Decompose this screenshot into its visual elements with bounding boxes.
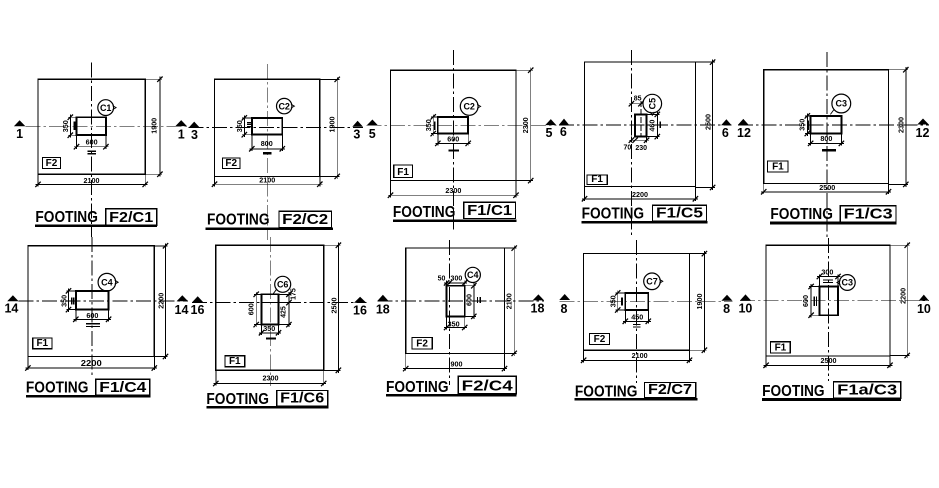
dimension 2300 (footing depth) [530, 68, 532, 183]
wire: vertical centerline grid 5 [452, 50, 454, 232]
footing type label F1 [768, 161, 789, 172]
svg-text:14: 14 [175, 303, 189, 317]
node column bubble C3 [832, 94, 851, 113]
dimension 2200 (footing depth) [906, 243, 908, 358]
svg-text:F2/C4: F2/C4 [462, 377, 514, 394]
dimension 2500 (footing width) [761, 191, 891, 193]
dimension 350 (column width) [444, 327, 467, 329]
svg-text:300: 300 [451, 276, 463, 283]
svg-text:FOOTING: FOOTING [762, 383, 825, 400]
svg-text:5: 5 [546, 126, 553, 140]
wire: vertical centerline grid 8 [636, 240, 638, 383]
dimension 350 (column depth) [243, 115, 245, 137]
svg-text:2100: 2100 [504, 293, 513, 309]
wire: vertical centerline grid 10 [827, 238, 829, 381]
dimension 70 / 230 (column offsets) [629, 139, 649, 141]
svg-text:C2: C2 [278, 101, 290, 111]
svg-text:F2: F2 [594, 334, 606, 345]
dimension 2100 (footing depth) [513, 246, 515, 356]
svg-text:1900: 1900 [150, 118, 159, 134]
svg-text:F1: F1 [36, 338, 48, 349]
column C4 [76, 291, 109, 310]
rebar mark below column [822, 149, 836, 151]
node column bubble C7 [644, 273, 661, 290]
svg-text:600: 600 [465, 294, 474, 306]
dimension 600 (column width) [73, 318, 111, 320]
svg-text:2200: 2200 [632, 190, 648, 199]
dimension 2300 (footing width) [213, 383, 326, 385]
column C7 [625, 293, 648, 310]
dimension 175 / 425 (column splits) [288, 292, 290, 327]
footing type label F2 [590, 333, 610, 344]
dimension 2500 (footing depth) [337, 243, 339, 373]
svg-text:2300: 2300 [897, 117, 906, 133]
dimension 350 (column depth) [69, 115, 71, 138]
dimension 2200 (footing width) [582, 198, 698, 200]
svg-text:F1/C3: F1/C3 [844, 206, 893, 223]
svg-text:300: 300 [821, 268, 833, 277]
rebar mark left of column [247, 122, 251, 124]
wire: grid centerline horizontal segment 2 [189, 126, 363, 128]
dimension 900 (footing width) [403, 368, 507, 370]
node grid marker 12 [917, 119, 929, 125]
svg-text:8: 8 [561, 302, 568, 316]
footing F2/C1 outline [38, 79, 145, 174]
svg-text:FOOTING: FOOTING [26, 379, 89, 396]
node column bubble C4 [465, 267, 480, 282]
svg-text:600: 600 [86, 311, 98, 320]
svg-text:C3: C3 [842, 278, 854, 288]
svg-text:16: 16 [191, 303, 205, 317]
wire: grid centerline horizontal segment 4 [559, 124, 732, 126]
wire: vertical centerline grid 6 [630, 50, 632, 235]
svg-text:F2: F2 [416, 338, 428, 349]
wire: column centerline [640, 101, 642, 137]
wire: grid centerline horizontal segment 7 [192, 302, 366, 304]
svg-text:450: 450 [631, 312, 643, 321]
svg-text:2100: 2100 [84, 176, 100, 185]
svg-text:FOOTING: FOOTING [770, 206, 833, 223]
node grid marker 5 [367, 120, 379, 126]
dimension 450 (column width) [623, 320, 651, 322]
svg-text:1: 1 [178, 128, 185, 142]
svg-text:8: 8 [723, 302, 730, 316]
wire: vertical centerline grid 12 [826, 52, 828, 237]
svg-text:16: 16 [353, 303, 367, 317]
svg-text:C1: C1 [100, 103, 112, 113]
dowel bar mark [73, 122, 75, 131]
svg-text:F1: F1 [229, 356, 241, 367]
svg-text:F1: F1 [591, 174, 603, 185]
footing F1/C1 outline [391, 70, 517, 180]
svg-text:F1a/C3: F1a/C3 [837, 382, 897, 399]
wire: grid centerline horizontal segment 8 [378, 300, 545, 302]
svg-text:FOOTING: FOOTING [582, 205, 645, 222]
svg-text:2200: 2200 [898, 288, 907, 304]
svg-text:C4: C4 [101, 277, 113, 287]
svg-text:FOOTING: FOOTING [386, 379, 449, 396]
svg-text:10: 10 [917, 302, 931, 316]
dimension 1900 (footing depth) [336, 77, 338, 179]
svg-text:1900: 1900 [328, 117, 337, 133]
dimension 85 (offset) [629, 103, 644, 105]
footing F1a/C3 outline [766, 245, 890, 356]
footing F2/C7 outline [584, 254, 690, 351]
svg-text:F1/C6: F1/C6 [280, 390, 324, 407]
node column bubble C1 [98, 100, 114, 116]
svg-text:F1/C4: F1/C4 [99, 379, 147, 396]
svg-text:800: 800 [261, 139, 273, 148]
svg-text:600: 600 [447, 134, 459, 143]
wire: vertical centerline grid 1 [91, 63, 93, 238]
svg-text:70: 70 [624, 144, 632, 151]
rebar mark below column [449, 149, 460, 151]
rebar mark below 300 dim [823, 279, 833, 281]
node grid marker 8 [559, 294, 570, 300]
svg-text:2500: 2500 [329, 298, 338, 314]
node grid marker 12 [738, 119, 749, 125]
dimension 350 (column depth) [617, 290, 619, 312]
wire: grid centerline horizontal segment 1 [25, 125, 188, 127]
wire: grid centerline horizontal segment 5 [738, 124, 929, 126]
footing F1/C3 outline [764, 70, 889, 184]
node column bubble C2 [277, 98, 292, 113]
svg-text:F2: F2 [225, 158, 237, 169]
node grid marker 18 [533, 294, 545, 300]
footing F1/C5 outline [585, 62, 696, 186]
svg-text:F2/C1: F2/C1 [109, 209, 153, 226]
svg-text:800: 800 [820, 134, 832, 143]
svg-text:F2/C7: F2/C7 [648, 381, 692, 398]
svg-text:C4: C4 [467, 270, 479, 280]
column C1 [77, 117, 106, 135]
svg-text:F1/C1: F1/C1 [467, 202, 512, 219]
dimension 2200 (footing width) [25, 367, 156, 369]
svg-text:F1: F1 [397, 167, 409, 178]
dimension 350 (column depth) [806, 113, 808, 136]
svg-text:6: 6 [722, 126, 729, 140]
node grid marker 3 [189, 122, 200, 128]
svg-text:2300: 2300 [263, 373, 279, 382]
wire: vertical centerline grid 16 [269, 237, 271, 386]
footing type label F1 [587, 175, 607, 185]
node grid marker 3 [352, 121, 363, 127]
dimension 1900 (footing depth) [703, 251, 705, 353]
svg-text:18: 18 [376, 302, 390, 316]
dimension 460 (column depth) [656, 112, 658, 139]
column C4 [447, 286, 465, 317]
node column bubble C5 [643, 94, 662, 113]
svg-text:2500: 2500 [821, 356, 837, 365]
node grid marker 18 [378, 295, 389, 301]
svg-text:2100: 2100 [632, 351, 648, 360]
node grid marker 1 [175, 120, 187, 126]
rebar mark below column [633, 323, 640, 325]
svg-text:230: 230 [635, 145, 647, 152]
wire: grid centerline horizontal segment 6 [19, 300, 189, 302]
rebar mark below column [87, 150, 96, 152]
svg-text:425: 425 [281, 306, 288, 318]
column C6 [262, 294, 279, 324]
column C2 [252, 118, 282, 135]
svg-text:FOOTING: FOOTING [35, 209, 98, 226]
node grid marker 5 [545, 119, 556, 125]
node grid marker 6 [721, 119, 732, 125]
svg-text:350: 350 [59, 295, 68, 307]
svg-text:600: 600 [801, 295, 810, 307]
dimension 2500 (footing depth) [712, 60, 714, 190]
column C5 [635, 114, 647, 136]
footing F2/C4 outline [406, 248, 505, 353]
svg-text:10: 10 [738, 302, 752, 316]
footing type label F1 [771, 342, 791, 353]
dimension 350 (column depth) [68, 288, 70, 312]
footing type label F2 [223, 158, 241, 169]
svg-text:C7: C7 [646, 277, 658, 287]
node column bubble C6 [275, 276, 291, 292]
svg-text:350: 350 [448, 319, 460, 328]
dimension 600 (column width) [435, 142, 470, 144]
dowel bar mark [434, 121, 436, 130]
dimension 350 (column depth) [432, 114, 434, 136]
rebar mark below column [263, 152, 272, 154]
dimension 2200 (footing depth) [165, 243, 167, 359]
rebar mark below column [266, 338, 276, 340]
svg-text:12: 12 [737, 126, 751, 140]
svg-text:2200: 2200 [81, 359, 103, 368]
svg-text:6: 6 [560, 125, 567, 139]
svg-text:50: 50 [438, 276, 446, 283]
wire: vertical centerline grid 18 [448, 240, 450, 385]
svg-text:C6: C6 [277, 280, 289, 290]
svg-text:3: 3 [353, 128, 360, 142]
svg-text:350: 350 [798, 119, 807, 131]
svg-text:2500: 2500 [704, 114, 713, 130]
svg-text:900: 900 [451, 359, 463, 368]
dimension 2100 (footing width) [36, 183, 148, 185]
footing type label F1 [33, 338, 52, 349]
dimension 1900 (footing depth) [159, 77, 161, 177]
svg-text:350: 350 [263, 324, 275, 333]
svg-text:12: 12 [916, 126, 930, 140]
svg-text:2300: 2300 [521, 117, 530, 133]
dimension 600 (column depth) [473, 283, 475, 319]
dimension 50 / 300 (column offsets) [444, 282, 467, 284]
svg-text:350: 350 [61, 120, 70, 132]
node grid marker 14 [177, 295, 189, 301]
svg-text:600: 600 [247, 303, 256, 315]
rebar mark left of column [71, 297, 73, 304]
dimension 350 (column width) [259, 332, 281, 334]
svg-text:350: 350 [424, 119, 433, 131]
dimension 600 (column depth) [810, 284, 812, 318]
svg-text:F2: F2 [46, 158, 58, 169]
svg-text:2500: 2500 [819, 183, 835, 192]
rebar mark below column [86, 323, 100, 325]
svg-text:2300: 2300 [445, 186, 461, 195]
footing type label F1 [394, 165, 413, 178]
footing type label F1 [225, 356, 245, 367]
node column bubble C4 [98, 273, 116, 291]
footing F1/C4 outline [28, 246, 154, 357]
dimension 2100 (footing width) [581, 359, 692, 361]
footing type label F2 [412, 338, 432, 349]
svg-text:175: 175 [291, 288, 298, 300]
column C3 [811, 116, 842, 134]
svg-text:C3: C3 [836, 99, 848, 109]
svg-text:18: 18 [531, 301, 545, 315]
node grid marker 6 [559, 119, 569, 125]
node grid marker 16 [354, 297, 366, 303]
svg-text:5: 5 [369, 127, 376, 141]
svg-text:C2: C2 [463, 102, 475, 112]
dimension 800 (column width) [808, 142, 844, 144]
wire: vertical centerline grid 3 [266, 64, 268, 240]
dimension 2100 (footing width) [212, 183, 322, 185]
svg-text:F2/C2: F2/C2 [282, 211, 328, 228]
wire: grid centerline horizontal segment 9 [559, 300, 732, 302]
svg-text:1: 1 [16, 127, 23, 141]
svg-text:F1: F1 [772, 162, 784, 173]
node grid marker 1 [14, 120, 26, 126]
footing F1/C6 outline [216, 245, 324, 370]
dimension 600 (column width) [74, 146, 108, 148]
svg-text:FOOTING: FOOTING [575, 383, 638, 400]
svg-text:85: 85 [634, 95, 642, 102]
svg-text:FOOTING: FOOTING [207, 212, 270, 229]
dimension 2300 (footing width) [388, 194, 519, 196]
rebar mark right of column [477, 297, 479, 303]
dowel bar mark [621, 298, 623, 306]
svg-text:350: 350 [235, 120, 244, 132]
node grid marker 16 [192, 296, 203, 302]
footing type label F2 [42, 158, 60, 169]
dimension 2300 (footing depth) [905, 67, 907, 187]
dowel bar mark [659, 122, 661, 128]
svg-text:2200: 2200 [156, 293, 165, 309]
wire: grid centerline horizontal segment 10 [740, 300, 929, 302]
node grid marker 10 [740, 294, 751, 300]
dimension 300 (column width) [817, 276, 841, 278]
column C3 [819, 287, 838, 316]
svg-text:F1/C5: F1/C5 [656, 204, 703, 221]
wire: grid centerline horizontal segment 3 [367, 124, 557, 126]
dimension 2500 (footing width) [764, 364, 893, 366]
svg-text:FOOTING: FOOTING [206, 391, 269, 408]
column C2 [438, 117, 468, 134]
node grid marker 10 [919, 295, 929, 301]
svg-text:2100: 2100 [259, 175, 275, 184]
node grid marker 14 [7, 295, 18, 301]
dimension 600 (column depth) [255, 292, 257, 327]
node column bubble C3 [839, 275, 855, 291]
svg-text:600: 600 [86, 137, 98, 146]
footing F2/C2 outline [215, 79, 320, 176]
node grid marker 8 [721, 295, 732, 301]
rebar mark left of column [813, 297, 815, 306]
wire: vertical centerline grid 14 [91, 237, 93, 376]
svg-text:460: 460 [648, 120, 657, 132]
svg-text:14: 14 [4, 302, 18, 316]
svg-text:350: 350 [608, 295, 617, 307]
svg-text:3: 3 [191, 128, 198, 142]
dimension 800 (column width) [249, 148, 284, 150]
svg-text:FOOTING: FOOTING [393, 204, 456, 221]
svg-text:F1: F1 [775, 343, 787, 354]
svg-text:C5: C5 [648, 98, 658, 110]
svg-text:1900: 1900 [695, 294, 704, 310]
dowel bar mark [807, 120, 809, 130]
node column bubble C2 [460, 98, 478, 116]
